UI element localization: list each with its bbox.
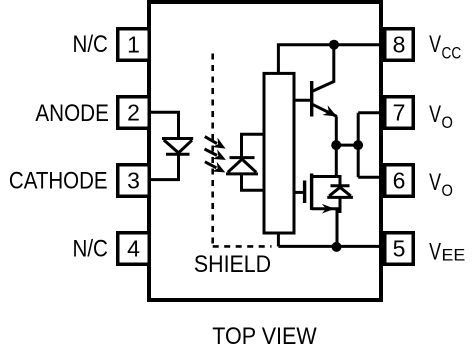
svg-text:CC: CC <box>442 43 462 62</box>
svg-text:V: V <box>429 31 441 58</box>
svg-text:7: 7 <box>393 99 406 125</box>
svg-text:V: V <box>429 169 441 196</box>
svg-text:2: 2 <box>127 99 140 125</box>
svg-text:N/C: N/C <box>73 236 108 263</box>
svg-text:O: O <box>442 181 453 200</box>
svg-text:4: 4 <box>127 235 140 261</box>
svg-text:N/C: N/C <box>73 31 108 58</box>
svg-text:V: V <box>429 101 441 128</box>
svg-text:1: 1 <box>127 31 140 57</box>
svg-text:8: 8 <box>393 31 406 57</box>
svg-text:ANODE: ANODE <box>35 100 109 127</box>
svg-text:5: 5 <box>393 235 406 261</box>
svg-text:CATHODE: CATHODE <box>9 167 108 194</box>
svg-text:6: 6 <box>393 167 406 193</box>
svg-text:3: 3 <box>127 167 140 193</box>
svg-text:TOP VIEW: TOP VIEW <box>212 323 317 350</box>
svg-text:SHIELD: SHIELD <box>194 251 271 278</box>
svg-text:EE: EE <box>442 245 466 264</box>
svg-text:O: O <box>442 113 453 132</box>
svg-text:V: V <box>429 238 441 265</box>
